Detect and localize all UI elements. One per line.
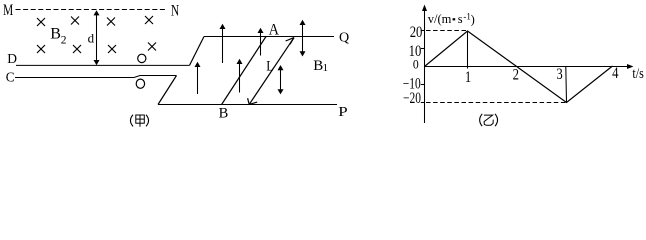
label C [6,71,15,86]
bend lower (rail C to incline bottom) [158,76,177,105]
y tick -10 [421,84,425,86]
v-t curve [425,31,613,103]
label Q [339,31,349,46]
y label -10 [403,75,421,92]
label N [171,3,179,20]
svg-text:1: 1 [465,69,471,86]
svg-text:3: 3 [556,66,562,83]
t axis [425,64,634,69]
B2 field cross r1c3 [107,18,115,26]
svg-text:2: 2 [513,66,519,83]
x label 1 [465,69,471,86]
x label 2 [513,66,519,83]
B2 field cross r2c4 [148,43,156,51]
svg-text:C: C [6,71,15,86]
caption (jia) [130,115,148,127]
label d [88,31,95,46]
rail C [15,76,177,78]
svg-text:s: s [458,12,463,26]
y label 20 [410,24,423,41]
terminal O upper [138,54,146,62]
peak drop line at t=1 [467,31,469,69]
svg-text:L: L [266,58,274,74]
svg-text:Q: Q [339,31,349,46]
label P [338,105,348,120]
B2 field cross r1c4 [145,16,153,24]
svg-text:A: A [269,21,280,38]
svg-text:N: N [171,3,179,20]
svg-text:v/(m: v/(m [428,12,452,26]
label A [269,21,280,38]
svg-text:M: M [3,2,13,19]
boundary line MN (dashed) [16,9,168,11]
y label 10 [409,43,422,60]
B1 direction double arrow [300,20,306,57]
x label 4 [612,65,618,82]
svg-text:20: 20 [410,24,423,41]
field B1 arrow 3 [237,59,243,93]
y label 0 [413,57,419,72]
svg-text:): ) [471,12,475,26]
label D [7,51,17,66]
svg-text:−20: −20 [403,90,421,107]
field B1 arrow 1 [195,62,201,94]
field B1 arrow 2 [220,24,226,63]
svg-text:B: B [50,25,61,42]
svg-text:2: 2 [61,34,67,46]
label L [266,58,274,74]
caption (yi) [480,114,498,126]
y label -20 [403,90,421,107]
B2 field cross r2c1 [37,45,45,53]
y tick 20 [421,30,425,32]
v axis label [428,11,475,26]
svg-text:4: 4 [612,65,618,82]
terminal O lower [136,79,144,88]
field B1 arrow 4 [258,28,264,56]
rod AB (left edge of incline) [222,37,266,105]
trough vertical at t=3 [565,67,568,103]
incline bottom rail [158,104,337,106]
svg-text:B: B [219,106,229,122]
label M [3,2,13,19]
B2 field cross r2c2 [73,45,81,53]
label B2 [50,25,66,46]
v axis [422,5,427,124]
label B1 [313,58,328,74]
svg-text:d: d [88,31,95,46]
y tick -20 [421,102,425,104]
gap width d arrow [94,10,100,65]
svg-text:P: P [338,105,348,120]
length L double arrow [278,65,284,94]
dashed level +20 [426,30,468,32]
svg-text:D: D [7,51,17,66]
y tick 10 [421,48,425,50]
x label 3 [556,66,562,83]
B2 field cross r2c3 [108,45,116,53]
svg-text:1: 1 [323,62,329,74]
rail D [16,64,190,66]
B2 field cross r1c2 [71,17,79,25]
t axis label [632,66,644,82]
bend upper (rail D to incline top) [190,37,205,66]
incline top rail [204,36,334,38]
B2 field cross r1c1 [37,18,45,26]
label B [219,106,229,122]
svg-text:t/s: t/s [632,66,644,82]
dashed level -20 [426,102,567,104]
svg-text:0: 0 [413,57,419,72]
motion arrow along incline (double-headed diagonal) [248,38,294,105]
